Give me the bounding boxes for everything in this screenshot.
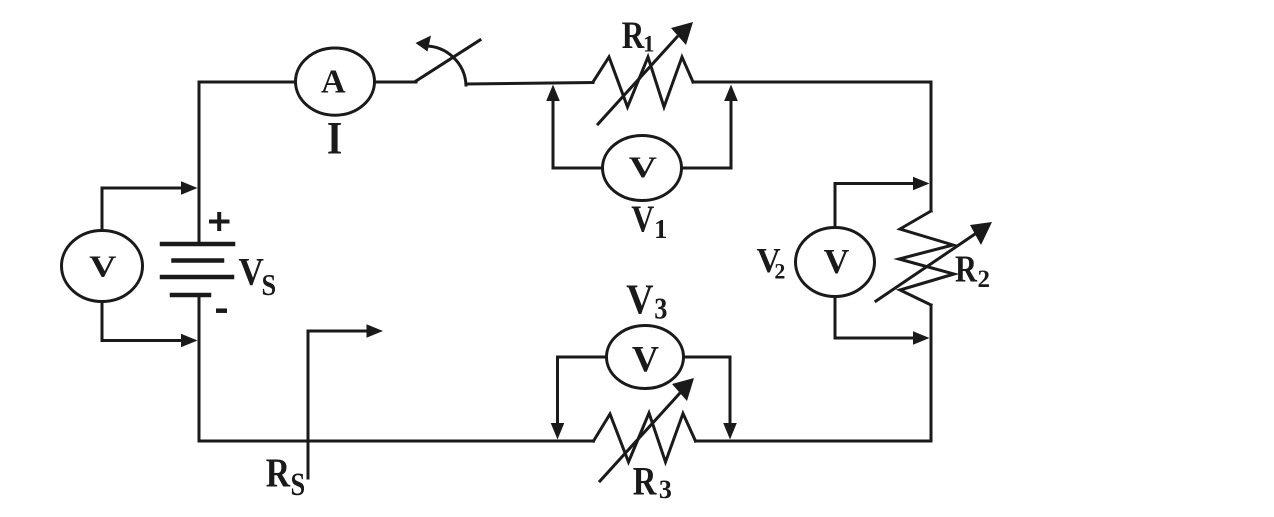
voltmeter V2 body: [796, 228, 875, 297]
switch S1 opening arc: [425, 46, 466, 85]
wire bottom (bottom-right corner to bottom-left corner): [696, 440, 932, 443]
ammeter U-A: [296, 48, 375, 115]
resistor Rs slider wire: [307, 331, 310, 478]
svg-text:V: V: [239, 251, 265, 294]
voltmeter U-V (source voltmeter): [62, 231, 143, 302]
voltmeter U-V bottom lead arrowhead: [181, 334, 198, 348]
svg-text:S: S: [291, 466, 306, 502]
resistor Rs slider arrowhead: [367, 324, 384, 338]
resistor R3 zigzag: [594, 413, 696, 462]
svg-text:3: 3: [654, 292, 667, 326]
battery Vs plate 4 (short, -): [172, 293, 209, 298]
battery + sign: [209, 212, 230, 231]
resistor R1 zigzag: [593, 57, 693, 107]
battery - sign: [216, 308, 227, 313]
svg-text:R: R: [266, 452, 291, 497]
wire top (corner to ammeter A): [199, 81, 294, 84]
svg-text:S: S: [262, 268, 277, 302]
voltmeter V3 left lead arrowhead: [551, 423, 565, 440]
wire (ammeter to switch S1 left contact): [376, 81, 416, 84]
voltmeter V2 top lead wire: [835, 184, 913, 227]
wire right branch (R2 down to bottom-right corner): [930, 305, 933, 441]
resistor R2 variable arrowhead: [970, 222, 992, 245]
wire (switch right contact to resistor R1): [466, 83, 593, 85]
battery Vs plate 2 (short): [174, 258, 223, 263]
voltmeter V1 left lead arrowhead: [546, 85, 560, 102]
battery Vs plate 3 (long): [162, 275, 232, 280]
wire left branch top (battery + to top-left corner): [198, 82, 201, 244]
switch S1 arc arrowhead: [416, 36, 432, 52]
switch S1 blade (open): [416, 40, 480, 81]
resistor R1 variable arrow shaft: [598, 37, 677, 124]
voltmeter V1 right lead wire: [683, 102, 731, 168]
svg-text:V: V: [632, 340, 659, 381]
svg-text:3: 3: [659, 475, 672, 504]
svg-text:V: V: [626, 276, 653, 323]
svg-text:2: 2: [774, 259, 785, 284]
svg-text:I: I: [327, 114, 342, 165]
svg-text:R: R: [633, 458, 657, 503]
voltmeter U-V bottom lead wire: [102, 303, 181, 341]
resistor R2 zigzag: [899, 211, 954, 305]
svg-text:V: V: [631, 198, 654, 240]
voltmeter V1 body: [603, 136, 682, 201]
voltmeter V2 top lead arrowhead: [913, 177, 930, 191]
svg-text:2: 2: [978, 266, 991, 293]
resistor R3 variable arrow shaft: [600, 393, 680, 481]
svg-text:V: V: [89, 250, 116, 284]
voltmeter V3 body: [607, 326, 684, 389]
voltmeter V1 left lead wire: [553, 102, 601, 168]
resistor Rs slider arrow shaft: [308, 330, 365, 333]
svg-text:R: R: [955, 249, 978, 291]
resistor R3 variable arrowhead: [672, 378, 694, 401]
wire left branch bottom (battery - down to bottom-left corner): [198, 295, 201, 441]
svg-text:V: V: [629, 150, 657, 184]
resistor R2 variable arrow shaft: [876, 232, 978, 301]
voltmeter U-V top lead arrowhead: [181, 181, 198, 195]
svg-text:R: R: [622, 14, 645, 57]
voltmeter V3 left lead wire: [558, 357, 606, 422]
resistor R1 variable arrowhead: [671, 22, 693, 45]
wire right branch (corner down to R2): [930, 82, 933, 211]
svg-text:1: 1: [643, 31, 655, 56]
voltmeter U-V top lead wire: [102, 188, 181, 229]
svg-text:V: V: [824, 243, 850, 281]
wire (R1 to top-right corner): [693, 81, 931, 84]
voltmeter V3 right lead wire: [685, 357, 730, 422]
voltmeter V2 bottom lead arrowhead: [913, 331, 930, 345]
voltmeter V3 right lead arrowhead: [723, 423, 737, 440]
voltmeter V2 bottom lead wire: [835, 298, 913, 338]
battery Vs plate 1 (long, +): [162, 242, 233, 247]
voltmeter V1 right lead arrowhead: [724, 85, 738, 102]
svg-text:A: A: [321, 64, 346, 101]
svg-text:1: 1: [654, 214, 668, 244]
